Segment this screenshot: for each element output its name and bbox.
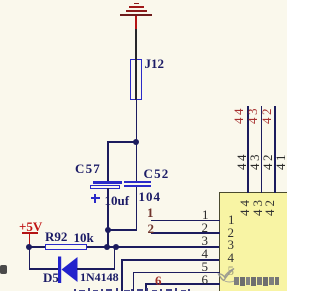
watermark logo	[217, 267, 237, 283]
pin number 42	[261, 152, 274, 170]
pin 1 wire	[151, 220, 220, 222]
pin number 2	[202, 221, 209, 234]
net label 6	[155, 274, 162, 287]
net label 43	[246, 106, 259, 124]
value 1N4148	[80, 271, 119, 283]
pin 4 wire	[121, 259, 219, 261]
pin name 4	[228, 251, 235, 264]
wire C57 down	[107, 188, 109, 247]
pin number 43	[248, 152, 261, 170]
net label 2	[148, 222, 155, 235]
node junction +5V	[26, 244, 32, 250]
bottom cut-off text	[0, 0, 1, 1]
node junction main-D5	[113, 244, 119, 250]
pin number 6	[202, 273, 209, 286]
pin number 1	[202, 208, 209, 221]
wire C52 down then left	[136, 187, 138, 230]
ground	[134, 3, 139, 5]
pin name 42	[263, 197, 276, 216]
pin name 5	[228, 264, 235, 277]
pin 5 wire	[133, 272, 220, 274]
designator C52	[144, 167, 170, 180]
wire D5 anode right then up	[77, 268, 115, 270]
net label 42	[260, 106, 273, 124]
left edge mark	[0, 265, 7, 274]
designator D5	[43, 271, 59, 284]
designator R92	[45, 230, 67, 243]
designator J12	[145, 57, 165, 70]
wire main bus y=246	[29, 246, 46, 248]
top pin 42 wire	[274, 106, 276, 193]
pin number 44	[235, 152, 248, 170]
node junction caps	[105, 227, 111, 233]
pin name 44	[238, 197, 251, 216]
pin name 3	[228, 238, 235, 251]
pin name 1	[228, 213, 235, 226]
node junction top	[133, 139, 139, 145]
top pin 44 wire	[247, 106, 249, 193]
wire +5V down to D5	[29, 247, 31, 270]
top pin 43 wire	[261, 106, 263, 193]
pin number 5	[202, 260, 209, 273]
pin number 41	[274, 152, 287, 170]
net label 44	[232, 106, 245, 124]
watermark text	[234, 277, 284, 287]
node junction main-C57	[104, 244, 110, 250]
net label 1	[147, 206, 154, 219]
designator C57	[75, 162, 101, 175]
pin number 4	[202, 247, 209, 260]
wire ground to J12	[135, 29, 137, 60]
wire to D5 cathode	[29, 268, 59, 270]
diode D5	[56, 255, 80, 285]
pin 2 wire	[151, 232, 220, 234]
IC U1 body	[219, 192, 301, 291]
wire junction to C57 (left then down)	[107, 141, 137, 143]
pin name 2	[228, 226, 235, 239]
value 10uf	[105, 194, 130, 207]
value 10k	[74, 231, 94, 244]
pin name 43	[251, 197, 264, 216]
wire junction to C52	[136, 141, 138, 181]
power +5V	[19, 220, 42, 233]
pin number 3	[202, 234, 209, 247]
value 104	[139, 190, 162, 203]
jumper J12	[130, 59, 142, 100]
pin 6 wire	[145, 283, 220, 285]
wire J12 to junction	[136, 99, 138, 141]
